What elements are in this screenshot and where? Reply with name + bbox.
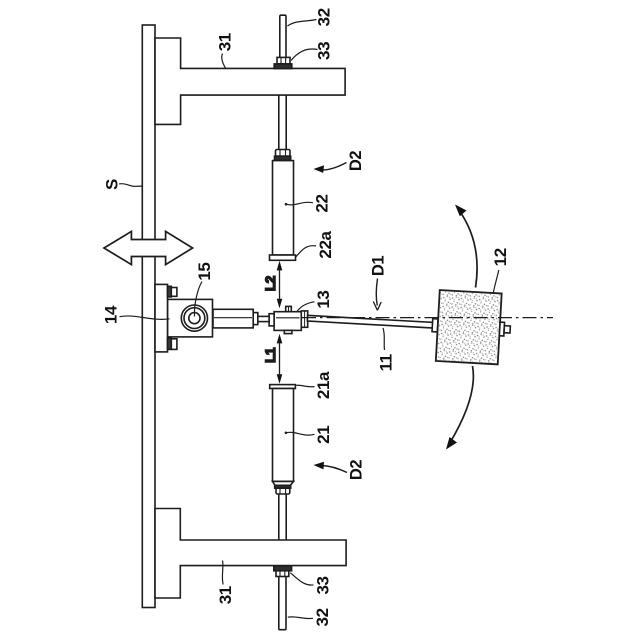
svg-text:32: 32 bbox=[313, 608, 332, 626]
rod 11 + weight 12 group (tilted) bbox=[306, 283, 513, 365]
L2 arrow bbox=[277, 261, 283, 309]
left collar of block 13 bbox=[269, 314, 274, 326]
big double arrow on plate bbox=[104, 231, 193, 264]
collar (cylinder 21 bottom) bbox=[276, 488, 290, 494]
svg-text:33: 33 bbox=[314, 576, 333, 594]
leader 31 top bbox=[222, 54, 226, 69]
rod 32 (top, above arm) bbox=[280, 15, 286, 57]
leader 31 bottom bbox=[221, 561, 224, 585]
rod 32 (bottom) bbox=[279, 577, 286, 630]
plate S bbox=[142, 25, 155, 608]
rotation arrow (bottom arc) bbox=[450, 366, 474, 444]
nut 33 (top) bbox=[277, 57, 290, 64]
svg-text:21a: 21a bbox=[314, 371, 333, 399]
hatched band (cylinder 22) bbox=[275, 156, 291, 160]
leader 15 bbox=[194, 282, 202, 317]
cap 21a bbox=[270, 385, 296, 389]
washer (top, dark) bbox=[274, 64, 292, 69]
leader dot 22 bbox=[285, 203, 288, 206]
svg-text:31: 31 bbox=[215, 33, 234, 51]
bracket 31 (bottom) bbox=[155, 509, 346, 599]
cap 22a bbox=[270, 255, 296, 260]
leader 12 bbox=[493, 270, 499, 293]
bracket 14 bottom tab bbox=[168, 338, 172, 349]
svg-text:32: 32 bbox=[315, 8, 334, 26]
hatched band (cylinder 21) bbox=[275, 485, 291, 488]
leader 13 bbox=[297, 302, 315, 312]
leader dot 21 bbox=[285, 432, 288, 435]
svg-text:31: 31 bbox=[216, 586, 235, 604]
bracket 31 (top) bbox=[155, 38, 345, 124]
bracket 14 top tab bbox=[168, 286, 172, 297]
leader 14 bbox=[120, 316, 170, 319]
motor block 15 bbox=[168, 299, 213, 337]
svg-text:12: 12 bbox=[491, 248, 510, 266]
block 13 bbox=[274, 312, 301, 331]
leader 32 bottom bbox=[288, 617, 313, 619]
block 13 top tab bbox=[286, 306, 292, 311]
svg-text:D1: D1 bbox=[370, 256, 388, 277]
svg-text:L1: L1 bbox=[263, 347, 278, 363]
rod 11 bbox=[307, 315, 433, 328]
svg-text:D2: D2 bbox=[347, 151, 365, 172]
piston rod into block bbox=[253, 316, 269, 321]
svg-text:S: S bbox=[103, 179, 122, 190]
nut 33 (bottom) bbox=[276, 571, 289, 577]
svg-text:11: 11 bbox=[376, 354, 395, 371]
washer (bottom, dark) bbox=[274, 566, 292, 571]
leader 22 bbox=[286, 202, 313, 205]
svg-text:22a: 22a bbox=[316, 230, 335, 258]
piston cylinder (actuator 15 shaft) bbox=[213, 309, 253, 328]
L1 arrow bbox=[277, 334, 283, 384]
leader 33 bottom bbox=[290, 573, 313, 585]
svg-text:21: 21 bbox=[314, 426, 333, 444]
leader 11 bbox=[383, 328, 385, 350]
arrow D2 (bottom) bbox=[322, 466, 348, 473]
collar (cylinder 22 top) bbox=[276, 150, 291, 157]
flange at weight bbox=[432, 319, 438, 332]
leader 21 bbox=[286, 432, 315, 435]
arrow D2 (top) bbox=[322, 163, 347, 170]
rotation arrow (top arc) bbox=[459, 210, 478, 288]
leader 21a bbox=[296, 385, 314, 387]
leader S bbox=[119, 184, 142, 187]
centerline (dash-dot) bbox=[302, 317, 553, 319]
block 13 bottom tab bbox=[284, 330, 292, 333]
svg-text:L2: L2 bbox=[263, 276, 278, 291]
leader 32 top bbox=[288, 20, 317, 27]
bolt on weight right bbox=[499, 322, 504, 336]
cylinder 21 body bbox=[273, 389, 294, 482]
arrow D1 bbox=[376, 279, 377, 306]
svg-text:15: 15 bbox=[195, 263, 214, 281]
right nut of block 13 bbox=[301, 311, 307, 327]
leader 33 top bbox=[291, 49, 318, 60]
leader 22a bbox=[295, 246, 316, 258]
bracket 14 base bbox=[155, 284, 168, 352]
svg-text:13: 13 bbox=[314, 291, 333, 309]
motor circles bbox=[181, 305, 207, 331]
svg-text:33: 33 bbox=[315, 42, 334, 60]
svg-text:14: 14 bbox=[102, 305, 121, 324]
svg-text:22: 22 bbox=[313, 194, 332, 212]
svg-text:D2: D2 bbox=[348, 460, 366, 481]
wire rod 32 to cylinder 22 bbox=[279, 95, 286, 149]
cylinder 22 body bbox=[273, 161, 294, 255]
piston flange bbox=[253, 313, 258, 325]
cylinder 21 neck taper bbox=[273, 481, 294, 485]
wire rod to bottom arm bbox=[279, 494, 286, 540]
weight 12 bbox=[436, 290, 502, 364]
